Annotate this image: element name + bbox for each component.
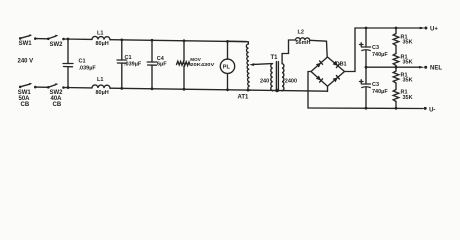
svg-text:SW2: SW2 [50, 42, 64, 48]
svg-text:AT1: AT1 [238, 95, 250, 101]
svg-text:SW2: SW2 [50, 90, 64, 96]
wire bridge left corner down to bottom output rail [308, 72, 311, 109]
inductor L1 bottom [92, 85, 110, 88]
node C2 bottom junction [120, 87, 123, 90]
capacitor C2 [117, 40, 127, 89]
svg-text:80µH: 80µH [96, 41, 109, 47]
svg-text:2400: 2400 [285, 78, 297, 84]
svg-text:L1: L1 [97, 31, 103, 37]
svg-text:C3: C3 [372, 82, 379, 88]
T1 core [275, 62, 277, 92]
wiper arrow of AT1 to T1 primary top [249, 63, 272, 66]
wire bridge right corner to top output rail [345, 28, 356, 72]
node C3 top rail junction [365, 27, 368, 30]
arrowhead NEL [419, 66, 425, 69]
wire bridge bottom stub [327, 86, 329, 91]
svg-text:L2: L2 [298, 29, 304, 35]
capacitor C3 upper [360, 28, 371, 67]
svg-text:740µF: 740µF [372, 89, 388, 95]
wire bottom rail SW1 to SW2 [36, 86, 48, 88]
node AT1 bottom junction [247, 89, 250, 92]
wire bottom rail L1 to bridge bottom [110, 88, 328, 91]
wire mid rail to NEL [366, 66, 421, 68]
svg-text:C3: C3 [372, 45, 379, 51]
capacitor C3 lower [360, 67, 371, 108]
bridge rectifier DB1 [311, 57, 345, 86]
svg-text:CB: CB [53, 102, 62, 108]
wire L2 to bridge top [310, 40, 328, 57]
wire T1 secondary top to L2 [282, 40, 295, 64]
switch SW2 top pole [47, 35, 65, 41]
node C3 bottom junction [365, 107, 368, 110]
svg-text:SW1: SW1 [19, 41, 33, 47]
node NEL terminal dot [424, 66, 427, 69]
svg-text:740µF: 740µF [372, 52, 388, 58]
node R1 top rail junction [395, 27, 398, 30]
svg-text:U-: U- [429, 107, 435, 113]
svg-text:NEL: NEL [430, 65, 442, 71]
svg-text:56mH: 56mH [296, 40, 311, 46]
svg-text:L1: L1 [97, 77, 103, 83]
node T1 winding bottoms junction [275, 89, 279, 93]
node PL bottom junction [226, 88, 229, 91]
diode DB1 upper-left [316, 63, 321, 68]
node C3 mid junction [365, 66, 368, 69]
T1 primary bottom lead [272, 90, 274, 92]
node MOV bottom junction [183, 88, 186, 91]
resistor R1 third [393, 71, 399, 90]
svg-text:240 V: 240 V [18, 58, 34, 64]
varistor MOV [177, 41, 191, 89]
node R1 mid junction [395, 66, 398, 69]
node C2 top junction [120, 39, 123, 42]
switch SW1 top pole [19, 34, 37, 40]
svg-text:20K430V: 20K430V [190, 62, 215, 67]
switch SW2 bottom pole [47, 83, 65, 89]
svg-text:.039µF: .039µF [124, 61, 142, 67]
resistor R1 first (top) [393, 28, 399, 54]
wire bottom rail SW2 to L1 [64, 87, 93, 89]
node U- terminal dot [424, 107, 427, 110]
inductor L2 [296, 38, 310, 41]
node R1 bottom junction [395, 107, 398, 110]
svg-text:C1: C1 [125, 55, 132, 61]
svg-text:35K: 35K [403, 60, 413, 66]
wire top rail SW2 to L1 [64, 38, 93, 40]
svg-text:U+: U+ [430, 26, 438, 32]
svg-text:240: 240 [260, 78, 269, 84]
lamp PL [220, 41, 234, 89]
inductor L1 top [92, 36, 110, 39]
wire top rail SW1 to SW2 [36, 38, 48, 40]
wire top rail L1 to AT1 [110, 40, 247, 42]
svg-text:DB1: DB1 [336, 62, 347, 68]
svg-text:C1: C1 [79, 59, 86, 65]
svg-text:35K: 35K [403, 95, 413, 101]
wire bottom output rail to U- [308, 107, 423, 110]
node PL top junction [226, 40, 229, 43]
resistor R1 fourth [393, 90, 399, 109]
T1 primary winding [271, 64, 273, 91]
T1 secondary bottom lead [281, 90, 283, 92]
node C1 top junction [67, 38, 70, 41]
node U+ terminal dot [424, 27, 427, 30]
capacitor C4 [147, 40, 157, 89]
svg-text:CB: CB [21, 102, 30, 108]
node C4 top junction [151, 39, 154, 42]
autotransformer AT1 [228, 41, 251, 90]
svg-text:35K: 35K [403, 40, 413, 46]
node C1 bottom junction [67, 86, 70, 89]
diode DB1 upper-right [333, 61, 338, 66]
wire output top rail to U+ [355, 27, 422, 29]
diode DB1 lower-right [333, 77, 338, 82]
diode DB1 lower-left [316, 76, 321, 81]
svg-text:.039µF: .039µF [79, 65, 97, 71]
node C4 bottom junction [151, 87, 154, 90]
svg-text:6µF: 6µF [157, 61, 167, 67]
arrowhead U+ [420, 27, 426, 30]
resistor R1 second [393, 54, 399, 72]
switch SW1 bottom pole [19, 83, 37, 89]
svg-text:80µH: 80µH [96, 90, 109, 96]
svg-text:T1: T1 [271, 55, 279, 61]
svg-text:35K: 35K [403, 78, 413, 84]
T1 secondary winding [282, 64, 284, 91]
svg-text:SW1: SW1 [18, 90, 32, 96]
node MOV top junction [183, 39, 186, 42]
svg-text:PL: PL [223, 65, 231, 71]
capacitor C1 [63, 39, 73, 88]
